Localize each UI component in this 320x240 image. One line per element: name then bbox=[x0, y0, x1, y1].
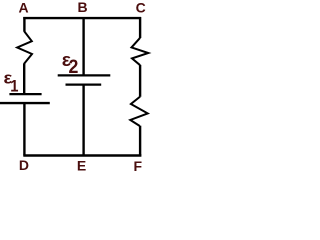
wire right vertical top (C to resistor) bbox=[139, 17, 141, 38]
emf label e1 subscript 1 bbox=[10, 78, 19, 96]
wire left vertical bottom (battery e1 to D) bbox=[23, 104, 25, 156]
battery E2 top plate (long, positive) bbox=[58, 74, 111, 76]
wire middle vertical bottom (battery e2 to E) bbox=[82, 85, 84, 156]
svg-text:C: C bbox=[136, 0, 146, 15]
resistor right-top (zigzag) bbox=[132, 38, 149, 65]
resistor right-bottom (zigzag) bbox=[130, 97, 147, 126]
wire right vertical bottom (resistor to F) bbox=[139, 126, 141, 156]
wire bottom D-E-F bbox=[23, 154, 141, 157]
wire top A-B-C bbox=[23, 17, 141, 19]
svg-text:D: D bbox=[19, 157, 29, 173]
emf label e2 subscript 2 bbox=[69, 56, 79, 78]
battery E2 bottom plate (short, negative) bbox=[66, 83, 102, 85]
battery E1 bottom plate (long, positive) bbox=[0, 102, 50, 104]
svg-text:F: F bbox=[134, 158, 143, 174]
svg-text:E: E bbox=[77, 158, 86, 174]
emf label e1 epsilon bbox=[4, 68, 13, 87]
wire left vertical top (A to resistor) bbox=[23, 17, 25, 32]
resistor left (zigzag) bbox=[17, 32, 32, 64]
wire right vertical middle (between resistors) bbox=[139, 65, 141, 97]
svg-text:B: B bbox=[77, 0, 87, 15]
svg-text:1: 1 bbox=[10, 78, 19, 96]
emf label e2 epsilon bbox=[62, 49, 71, 69]
svg-text:2: 2 bbox=[69, 56, 79, 78]
wire middle vertical top (B to battery e2) bbox=[82, 17, 84, 75]
svg-text:A: A bbox=[19, 0, 29, 15]
battery E1 top plate (short, negative) bbox=[9, 93, 41, 95]
wire left vertical middle (resistor to battery e1) bbox=[23, 63, 25, 94]
